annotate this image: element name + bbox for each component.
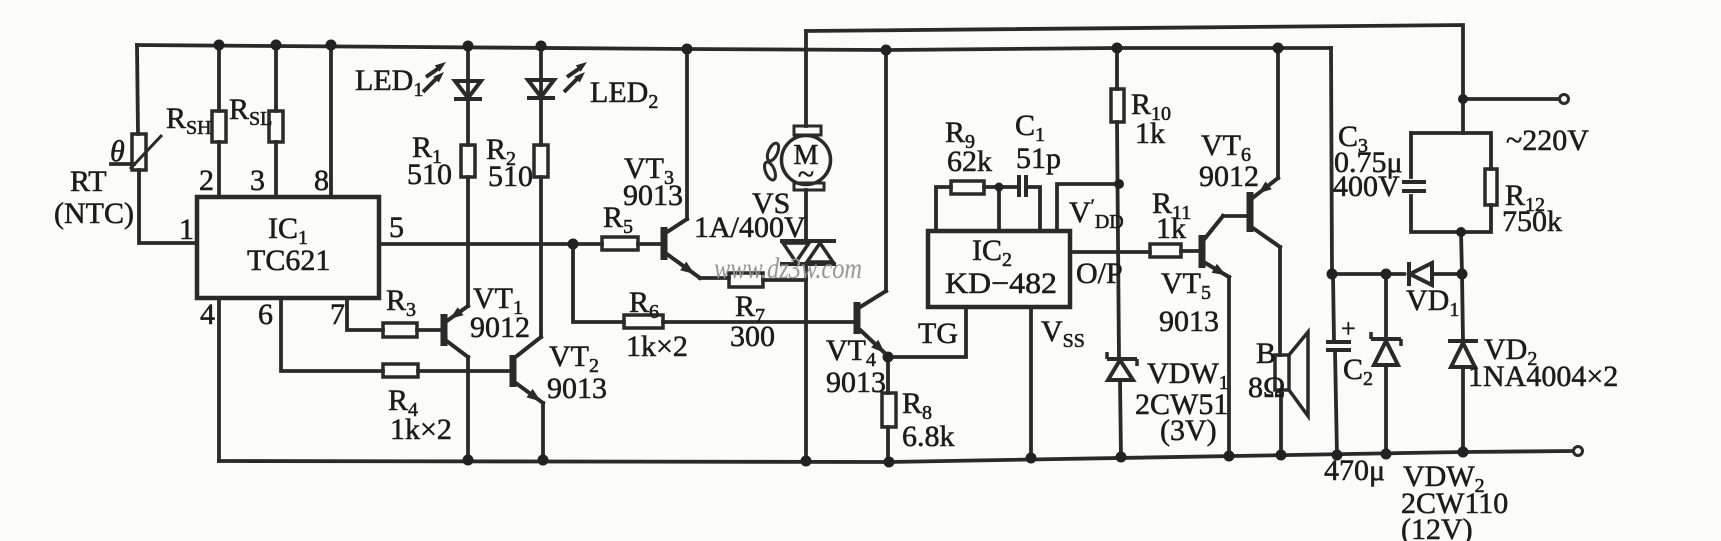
svg-text:300: 300 (730, 320, 775, 353)
svg-text:1k×2: 1k×2 (390, 413, 452, 446)
svg-text:1A/400V: 1A/400V (694, 211, 806, 244)
svg-text:400V: 400V (1333, 170, 1400, 203)
svg-text:510: 510 (488, 160, 533, 193)
svg-text:RSH: RSH (166, 102, 212, 139)
svg-text:1k: 1k (1135, 117, 1165, 150)
svg-text:(12V): (12V) (1401, 513, 1473, 541)
svg-text:1k: 1k (1156, 212, 1186, 245)
svg-text:TC621: TC621 (247, 244, 330, 277)
svg-text:6: 6 (258, 298, 273, 331)
svg-text:62k: 62k (947, 145, 992, 178)
svg-text:8Ω: 8Ω (1248, 371, 1285, 404)
svg-text:7: 7 (330, 298, 345, 331)
svg-text:510: 510 (407, 158, 452, 191)
svg-text:VT5: VT5 (1161, 267, 1211, 304)
svg-text:C1: C1 (1015, 109, 1045, 146)
svg-text:~220V: ~220V (1506, 124, 1589, 157)
svg-text:4: 4 (200, 298, 215, 331)
svg-text:R8: R8 (902, 387, 932, 424)
svg-text:C2: C2 (1343, 353, 1373, 390)
svg-text:TG: TG (918, 317, 958, 350)
svg-text:9012: 9012 (470, 311, 530, 344)
svg-text:R6: R6 (629, 286, 659, 323)
svg-text:2: 2 (199, 164, 214, 197)
svg-text:~: ~ (798, 158, 814, 191)
svg-text:470μ: 470μ (1324, 454, 1385, 487)
svg-text:B: B (1256, 337, 1276, 370)
svg-text:3: 3 (250, 164, 265, 197)
svg-text:9013: 9013 (1159, 305, 1219, 338)
svg-text:R3: R3 (386, 284, 416, 321)
svg-text:VD1: VD1 (1406, 284, 1459, 321)
svg-text:www.dz3w.com: www.dz3w.com (714, 252, 862, 285)
svg-text:(NTC): (NTC) (54, 197, 134, 230)
svg-text:5: 5 (389, 211, 404, 244)
svg-text:RT: RT (70, 165, 107, 198)
svg-text:1NA4004×2: 1NA4004×2 (1468, 360, 1618, 393)
svg-text:9013: 9013 (826, 366, 886, 399)
svg-text:9013: 9013 (547, 372, 607, 405)
svg-text:VSS: VSS (1041, 315, 1085, 352)
svg-text:O/P: O/P (1076, 257, 1123, 290)
svg-text:LED1: LED1 (355, 64, 423, 101)
svg-text:LED2: LED2 (590, 76, 658, 113)
svg-text:IC2: IC2 (972, 234, 1012, 271)
svg-text:1: 1 (179, 213, 194, 246)
svg-text:+: + (1341, 314, 1356, 343)
svg-text:750k: 750k (1502, 205, 1562, 238)
svg-text:1k×2: 1k×2 (626, 330, 688, 363)
svg-text:9013: 9013 (623, 179, 683, 212)
svg-text:RSL: RSL (229, 93, 272, 130)
svg-text:V′DD: V′DD (1069, 196, 1124, 233)
svg-text:51p: 51p (1016, 142, 1061, 175)
svg-text:θ: θ (110, 135, 125, 168)
svg-text:KD−482: KD−482 (945, 267, 1057, 300)
svg-text:9012: 9012 (1199, 160, 1259, 193)
svg-text:6.8k: 6.8k (902, 420, 955, 453)
svg-text:(3V): (3V) (1160, 414, 1217, 447)
svg-text:8: 8 (314, 164, 329, 197)
